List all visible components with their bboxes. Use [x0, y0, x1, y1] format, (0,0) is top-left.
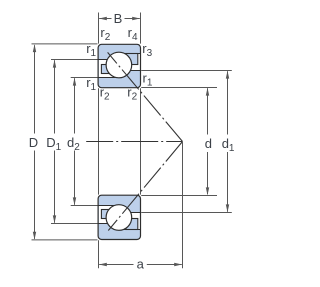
inner-ring shoulder line right (bottom) — [119, 212, 141, 214]
B extension line left — [98, 13, 100, 44]
a dimension line with arrows — [99, 264, 133, 266]
axis centre line (dash-dot) — [86, 141, 182, 143]
contact angle line through top ball to apex — [108, 52, 183, 141]
svg-text:B: B — [114, 11, 123, 26]
cage segment left (bottom) — [101, 210, 112, 219]
d2 extension line top — [71, 77, 98, 79]
inner-ring shoulder line left (top) — [98, 77, 119, 79]
a extension line left — [98, 240, 100, 268]
cage segment left (top) — [101, 65, 112, 74]
raceway gap right (bottom) — [119, 213, 140, 229]
raceway gap left (top) — [99, 60, 119, 77]
d1 extension line top — [141, 70, 232, 72]
raceway gap left (bottom) — [99, 206, 119, 223]
d extension line top (bore) — [141, 87, 217, 89]
wire left face line between sections — [98, 88, 100, 194]
a extension line right (apex drop line) — [182, 142, 184, 268]
bearing outline (top) — [98, 44, 140, 87]
D1 extension line top — [51, 59, 98, 61]
cage segment right (bottom) — [126, 219, 138, 230]
contact angle line through bottom ball to apex — [108, 142, 182, 231]
outer-ring shoulder line left (bottom) — [98, 223, 119, 225]
D1 extension line bottom — [51, 223, 98, 225]
d extension line bottom (bore) — [141, 195, 217, 197]
B dimension line with arrows — [99, 18, 111, 20]
svg-text:a: a — [137, 256, 145, 271]
bearing cross-section (bottom): outer ring + inner ring — [98, 195, 140, 239]
ball (top) — [106, 52, 132, 78]
outer-ring shoulder line right (top) — [119, 53, 141, 55]
d1 dimension line — [227, 71, 229, 134]
D extension line bottom — [32, 239, 98, 241]
wire right face line between sections — [140, 88, 142, 194]
raceway gap right (top) — [119, 54, 140, 70]
d dimension line — [207, 88, 209, 134]
r1 leader line lower left — [84, 77, 98, 79]
outer-ring shoulder line right (bottom) — [119, 229, 141, 231]
ball (bottom) — [106, 205, 132, 231]
cage segment right (top) — [126, 54, 138, 65]
d2 extension line bottom — [71, 205, 98, 207]
D extension line top — [32, 43, 98, 45]
D dimension line — [34, 45, 36, 133]
svg-text:d: d — [205, 136, 212, 151]
bearing cross-section (top): outer ring + inner ring — [98, 44, 140, 87]
d1 extension line bottom — [141, 212, 232, 214]
svg-text:D: D — [29, 135, 38, 150]
r1 leader line upper left — [84, 59, 98, 61]
inner-ring shoulder line left (bottom) — [98, 205, 119, 207]
bearing outline (bottom) — [98, 195, 140, 239]
d2 dimension line — [74, 78, 76, 133]
D1 dimension line — [54, 60, 56, 133]
B extension line right — [140, 13, 142, 44]
inner-ring shoulder line right (top) — [119, 70, 141, 72]
outer-ring shoulder line left (top) — [98, 59, 119, 61]
